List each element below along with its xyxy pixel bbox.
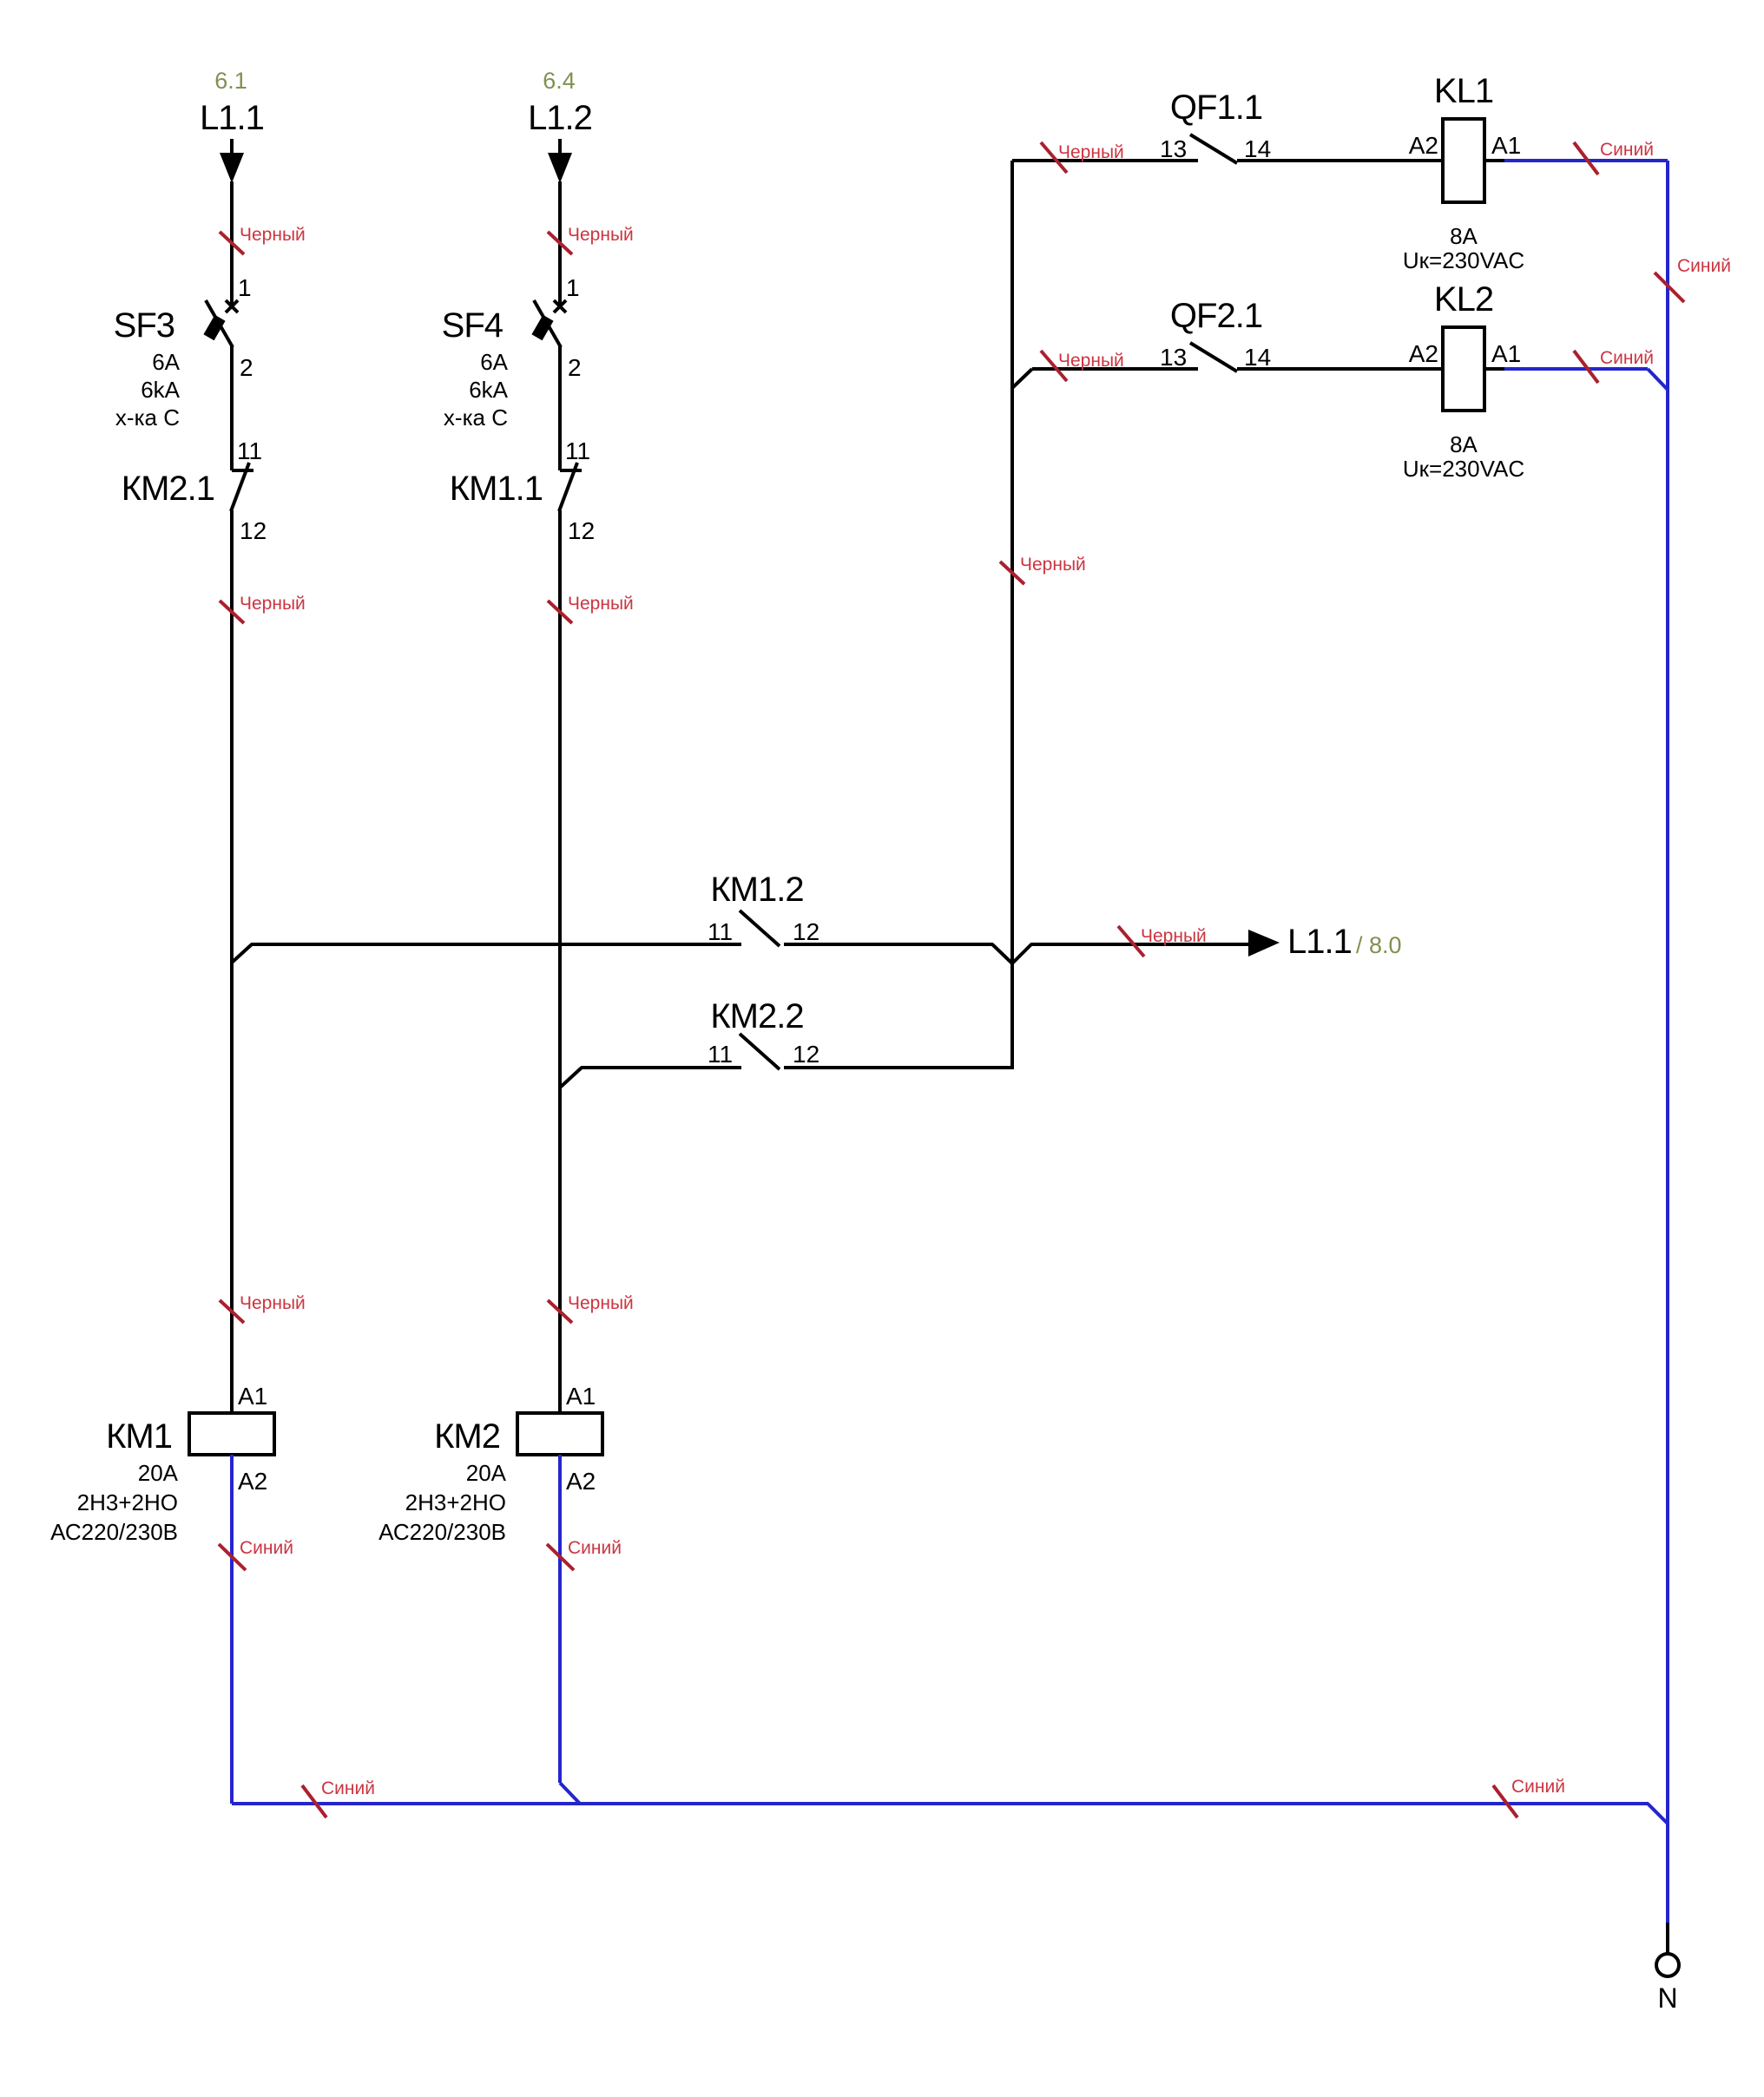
junction V right diagonal out of node xyxy=(1012,944,1031,963)
N riser colour slash Синий xyxy=(1655,273,1684,302)
wire below coil КМ2 Синий colour slash xyxy=(547,1544,574,1570)
svg-text:2Н3+2НО: 2Н3+2НО xyxy=(77,1489,178,1515)
svg-text:12: 12 xyxy=(240,517,267,544)
svg-text:2: 2 xyxy=(568,354,582,381)
junction jog from L1.1 column to contact KM1.2 branch xyxy=(232,944,252,963)
wire L1.1 stub above source arrow xyxy=(230,139,234,155)
svg-text:12: 12 xyxy=(568,517,595,544)
wire N riser lower stub (black) xyxy=(1666,1923,1669,1953)
wire breaker SF4 pin 2 to contact КМ1.1 pin 11 xyxy=(558,345,562,470)
wire above coil КМ2 Черный colour slash xyxy=(548,1300,572,1323)
wire N bus horizontal (blue) xyxy=(232,1802,1649,1805)
wire KL1 output Синий colour slash xyxy=(1574,142,1598,174)
svg-text:A1: A1 xyxy=(1491,340,1521,367)
wire below КМ1.1 Черный colour slash xyxy=(548,601,572,623)
QF feeder wire Черный colour slash xyxy=(1000,562,1024,584)
svg-text:х-ка С: х-ка С xyxy=(115,404,180,431)
svg-text:20А: 20А xyxy=(138,1460,179,1486)
svg-text:Синий: Синий xyxy=(1511,1777,1565,1797)
breaker SF3 trip unit box xyxy=(203,315,225,341)
svg-text:11: 11 xyxy=(237,437,262,464)
wire coil КМ2 A2 down to N bus (blue) xyxy=(558,1455,562,1783)
wire L1.2 Черный colour slash xyxy=(548,232,572,254)
wire QF2.1 input Черный colour slash xyxy=(1041,351,1067,381)
svg-text:Синий: Синий xyxy=(1600,348,1654,368)
svg-text:KL2: KL2 xyxy=(1434,280,1493,319)
svg-text:N: N xyxy=(1657,1982,1677,2014)
svg-text:6А: 6А xyxy=(480,349,508,375)
wire KM1.2 branch left segment xyxy=(251,943,741,946)
wire contact QF1.1 pin 14 to relay KL1 A2 xyxy=(1237,159,1443,162)
svg-text:КМ1: КМ1 xyxy=(106,1417,172,1456)
junction jog KM2 coil wire into N bus xyxy=(560,1783,580,1804)
svg-text:2Н3+2НО: 2Н3+2НО xyxy=(405,1489,506,1515)
wire below КМ2.1 Черный colour slash xyxy=(220,601,244,623)
wire KM2.2 pin 12 to corner under node xyxy=(784,1066,1014,1069)
svg-text:L1.1: L1.1 xyxy=(1287,923,1352,961)
svg-text:A1: A1 xyxy=(566,1383,596,1410)
breaker SF3 fixed contact X xyxy=(226,300,238,312)
wire relay KL1 A1 to N riser (blue) xyxy=(1504,159,1668,162)
wire relay KL2 A1 to N riser (blue) xyxy=(1504,367,1648,371)
svg-text:2: 2 xyxy=(240,354,253,381)
wire L1.1 Черный colour slash xyxy=(220,232,244,254)
contact QF1.1 NO moving arm xyxy=(1190,135,1237,163)
svg-text:КМ1.2: КМ1.2 xyxy=(710,871,803,909)
svg-text:Черный: Черный xyxy=(1020,555,1086,575)
junction jog from L1.2 column to contact KM2.2 branch xyxy=(560,1068,582,1088)
wire KM2.2 branch left segment xyxy=(581,1066,741,1069)
wire corner up from KM2.2 into node xyxy=(1010,962,1014,1069)
svg-text:8А: 8А xyxy=(1450,431,1478,457)
svg-text:14: 14 xyxy=(1244,344,1271,371)
svg-text:АС220/230В: АС220/230В xyxy=(378,1519,506,1545)
svg-text:14: 14 xyxy=(1244,135,1271,162)
wire relay KL2 A1 stub (black) xyxy=(1484,367,1505,371)
svg-text:SF3: SF3 xyxy=(114,306,174,345)
breaker SF4 fixed contact X xyxy=(554,300,566,312)
svg-text:12: 12 xyxy=(793,918,819,945)
N bus right Синий colour slash xyxy=(1493,1785,1517,1818)
wire node up to QF1.1 branch (vertical) xyxy=(1010,161,1014,964)
svg-text:КМ2: КМ2 xyxy=(434,1417,500,1456)
outgoing wire Черный colour slash xyxy=(1118,926,1144,956)
svg-text:6kА: 6kА xyxy=(141,377,180,403)
svg-text:KL1: KL1 xyxy=(1434,72,1493,110)
svg-text:Uк=230VAC: Uк=230VAC xyxy=(1403,247,1524,273)
svg-text:8А: 8А xyxy=(1450,223,1478,249)
coil КМ2 xyxy=(517,1413,602,1455)
contact KM2.2 NO moving arm xyxy=(740,1034,780,1069)
svg-text:Uк=230VAC: Uк=230VAC xyxy=(1403,456,1524,482)
wire contact QF2.1 pin 14 to relay KL2 A2 xyxy=(1237,367,1443,371)
relay coil KL2 xyxy=(1443,327,1484,411)
contact КМ2.1 seat bar xyxy=(232,469,253,472)
N bus left Синий colour slash xyxy=(302,1785,326,1818)
contact KM1.2 NO moving arm xyxy=(740,910,780,946)
svg-text:6А: 6А xyxy=(152,349,180,375)
wire node to outgoing arrow L1.1 xyxy=(1030,943,1250,946)
svg-text:х-ка С: х-ка С xyxy=(444,404,508,431)
svg-text:Черный: Черный xyxy=(240,594,306,614)
svg-text:Черный: Черный xyxy=(1058,351,1124,371)
svg-text:A2: A2 xyxy=(238,1468,267,1495)
svg-text:Черный: Черный xyxy=(568,225,634,245)
wire contact КМ1.1 pin 12 down to coil КМ2 A1 xyxy=(558,510,562,1413)
junction jog KL2 output into N riser xyxy=(1648,369,1668,390)
svg-text:6.4: 6.4 xyxy=(543,68,576,94)
wire L1.2 stub above source arrow xyxy=(558,139,562,155)
terminal N circle xyxy=(1656,1954,1679,1976)
svg-text:A1: A1 xyxy=(1491,132,1521,159)
source arrow into net L1.1 xyxy=(220,153,244,183)
svg-text:A2: A2 xyxy=(566,1468,596,1495)
wire N riser vertical (blue) xyxy=(1666,161,1669,1923)
svg-text:Черный: Черный xyxy=(240,1293,306,1313)
svg-text:Синий: Синий xyxy=(568,1538,622,1558)
svg-text:Черный: Черный xyxy=(1058,142,1124,162)
svg-text:Синий: Синий xyxy=(240,1538,293,1558)
wire relay KL1 A1 stub (black) xyxy=(1484,159,1505,162)
svg-text:A2: A2 xyxy=(1409,132,1438,159)
svg-text:1: 1 xyxy=(238,274,252,301)
relay coil KL1 xyxy=(1443,119,1484,202)
svg-text:Черный: Черный xyxy=(568,1293,634,1313)
svg-text:13: 13 xyxy=(1160,344,1187,371)
svg-text:SF4: SF4 xyxy=(442,306,504,345)
svg-text:Синий: Синий xyxy=(321,1778,375,1798)
breaker SF4 moving arm xyxy=(534,300,561,347)
svg-text:A1: A1 xyxy=(238,1383,267,1410)
svg-text:1: 1 xyxy=(566,274,580,301)
svg-text:Синий: Синий xyxy=(1677,256,1731,276)
svg-text:20А: 20А xyxy=(466,1460,507,1486)
svg-text:6kА: 6kА xyxy=(469,377,508,403)
svg-text:АС220/230В: АС220/230В xyxy=(50,1519,178,1545)
junction jog N bus into N riser xyxy=(1648,1804,1668,1824)
wire below coil КМ1 Синий colour slash xyxy=(219,1544,246,1570)
svg-text:QF1.1: QF1.1 xyxy=(1170,89,1262,127)
svg-text:12: 12 xyxy=(793,1041,819,1068)
svg-text:A2: A2 xyxy=(1409,340,1438,367)
junction V left diagonal into node xyxy=(992,944,1012,963)
svg-text:Черный: Черный xyxy=(1141,926,1207,946)
svg-text:КМ2.2: КМ2.2 xyxy=(710,997,803,1035)
svg-text:КМ1.1: КМ1.1 xyxy=(450,470,543,508)
svg-text:11: 11 xyxy=(565,437,590,464)
svg-text:КМ2.1: КМ2.1 xyxy=(122,470,214,508)
contact КМ1.1 NC moving arm xyxy=(559,463,577,511)
svg-text:Синий: Синий xyxy=(1600,140,1654,160)
wire KL2 output Синий colour slash xyxy=(1574,351,1598,383)
coil КМ1 xyxy=(189,1413,274,1455)
junction jog from QF vertical to QF2.1 branch xyxy=(1012,369,1032,388)
wire L1.2 arrow to breaker SF4 pin 1 xyxy=(558,181,562,307)
wire L1.1 arrow to breaker SF3 pin 1 xyxy=(230,181,234,307)
svg-text:11: 11 xyxy=(708,1041,733,1068)
breaker SF3 moving arm xyxy=(206,300,233,347)
outgoing arrow to L1.1 / 8.0 xyxy=(1248,930,1280,956)
source arrow into net L1.2 xyxy=(548,153,572,183)
breaker SF4 trip unit box xyxy=(531,315,553,341)
wire above coil КМ1 Черный colour slash xyxy=(220,1300,244,1323)
contact КМ2.1 NC moving arm xyxy=(231,463,249,511)
wire KM1.2 pin 12 to node junction xyxy=(784,943,993,946)
contact QF2.1 NO moving arm xyxy=(1190,343,1237,371)
svg-text:Черный: Черный xyxy=(568,594,634,614)
svg-text:L1.1: L1.1 xyxy=(200,99,264,137)
wire QF vertical to contact QF2.1 pin 13 xyxy=(1032,367,1198,371)
wire contact КМ2.1 pin 12 down to coil КМ1 A1 xyxy=(230,510,234,1413)
svg-text:6.1: 6.1 xyxy=(214,68,247,94)
contact КМ1.1 seat bar xyxy=(560,469,582,472)
svg-text:L1.2: L1.2 xyxy=(528,99,592,137)
wire QF1.1 input Черный colour slash xyxy=(1041,142,1067,173)
wire breaker SF3 pin 2 to contact КМ2.1 pin 11 xyxy=(230,345,234,470)
svg-text:QF2.1: QF2.1 xyxy=(1170,297,1262,335)
svg-text:Черный: Черный xyxy=(240,225,306,245)
svg-text:/ 8.0: / 8.0 xyxy=(1356,932,1402,958)
svg-text:11: 11 xyxy=(708,918,733,945)
svg-text:13: 13 xyxy=(1160,135,1187,162)
wire coil КМ1 A2 down to N bus (blue) xyxy=(230,1455,234,1804)
wire QF vertical to contact QF1.1 pin 13 xyxy=(1012,159,1198,162)
